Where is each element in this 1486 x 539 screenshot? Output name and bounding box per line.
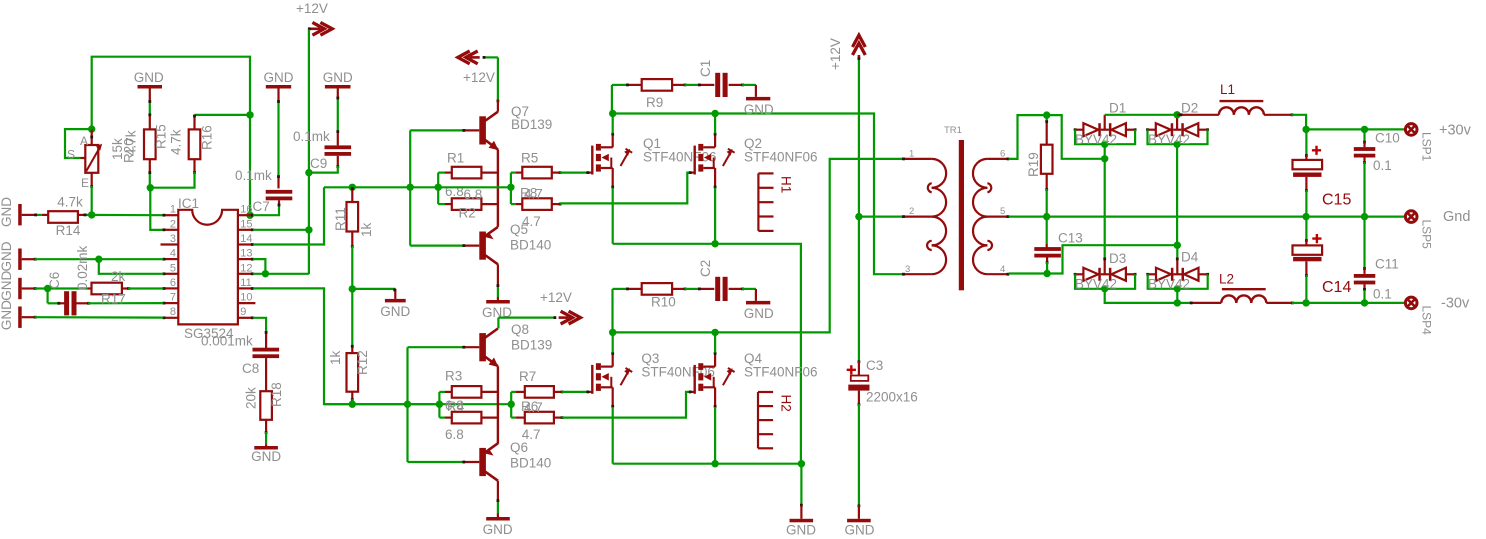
wire R2 right (481, 203, 498, 205)
junction VREF pin16 tap (246, 212, 253, 219)
wire Q8 base (408, 346, 464, 348)
junction +12V/C9 (305, 169, 312, 176)
svg-text:R10: R10 (651, 295, 676, 310)
wire -30v row (1306, 302, 1405, 304)
svg-text:C13: C13 (1058, 231, 1083, 246)
svg-text:R19: R19 (1026, 152, 1041, 177)
wire +12V rail x=308.9 (308, 30, 310, 275)
wire Q7 emitter rail (497, 149, 499, 227)
capacitor C2 (715, 277, 720, 301)
svg-text:16: 16 (240, 204, 252, 216)
svg-text:Q8: Q8 (511, 322, 529, 337)
wire pin6 row left (35, 287, 88, 289)
junction +30v node (1302, 126, 1309, 133)
capacitor C14 (polarized) (1312, 234, 1321, 243)
wire C7 bottom to pin16 (278, 200, 280, 204)
wire Q2 drain to rail (714, 114, 716, 134)
capacitor C11 (1354, 274, 1376, 278)
capacitor C8 (253, 348, 280, 352)
svg-text:R1: R1 (447, 151, 464, 166)
svg-text:R3: R3 (445, 369, 462, 384)
svg-text:D2: D2 (1181, 101, 1198, 116)
wire pin5 to C13 (1046, 217, 1048, 244)
svg-text:R9: R9 (646, 95, 663, 110)
wire divider mid to pin2 (150, 188, 163, 230)
junction R7/R6 left node (508, 401, 515, 408)
wire pin4 to D4 node (1009, 245, 1178, 273)
svg-text:R14: R14 (56, 223, 81, 238)
svg-text:14: 14 (240, 233, 252, 245)
junction R19 top (1043, 111, 1050, 118)
junction node A (trimmer top) (88, 125, 95, 132)
svg-text:9: 9 (240, 306, 246, 318)
wire R6 to Q4 gate (554, 417, 562, 419)
wire R17 right to pin6 (122, 287, 128, 289)
inductor L2 (1221, 295, 1236, 302)
junction D1 box tap (1101, 141, 1108, 148)
wire trimmer A lead (91, 129, 93, 145)
junction GND/C6 (44, 285, 51, 292)
wire D1 anode box (1075, 130, 1135, 145)
svg-text:12: 12 (240, 262, 252, 274)
svg-text:11: 11 (240, 277, 251, 289)
wire R4 right (481, 417, 498, 419)
transformer TR1 primary winding 2 (932, 217, 946, 246)
pin 9 stub (IC1 right) (238, 317, 253, 319)
power GND (mid, below R11) (385, 299, 406, 303)
svg-text:R5: R5 (521, 151, 538, 166)
wire C2 right to GND (729, 288, 742, 290)
transistor Q2 (STF40NF06) (694, 146, 696, 175)
wire R15 top (149, 101, 151, 116)
svg-text:C8: C8 (242, 361, 259, 376)
wire R14 left (35, 214, 42, 216)
wire Q3 source down (612, 407, 614, 464)
junction drain-rail2/Q4 (711, 329, 718, 336)
wire R10 left riser (611, 289, 613, 333)
wire R19 bottom (1046, 174, 1048, 189)
transistor Q5 (479, 232, 486, 260)
junction lower bases/node (404, 401, 411, 408)
junction +30v/C10 (1361, 126, 1368, 133)
wire pin6 to cathode taps (1009, 115, 1047, 159)
wire C8-R18 (265, 358, 267, 391)
wire pin5 jog (99, 259, 164, 274)
svg-text:LSP4: LSP4 (1420, 306, 1434, 336)
power GND (C2) (746, 301, 770, 305)
wire D2 anode box (1148, 130, 1208, 145)
wire lower source rail (613, 463, 802, 465)
svg-text:0.02mk: 0.02mk (75, 245, 90, 290)
svg-text:4.7: 4.7 (522, 214, 541, 229)
svg-text:2200x16: 2200x16 (866, 390, 918, 405)
wire pin14 to upper-node riser (253, 187, 324, 244)
svg-text:10: 10 (240, 292, 252, 304)
wire Q5 base (410, 245, 463, 247)
wire Q1 source down (612, 188, 614, 244)
svg-text:GND: GND (380, 304, 410, 319)
junction source rails join (798, 460, 805, 467)
svg-text:4.7k: 4.7k (169, 129, 184, 155)
junction R11 top (349, 184, 356, 191)
power GND (below R18) (265, 444, 267, 446)
wire Q4 drain to rail (714, 332, 716, 352)
svg-text:0.1mk: 0.1mk (293, 129, 330, 144)
wire upper source rail (613, 244, 801, 464)
wire D1-tap branch (1047, 115, 1105, 159)
transformer TR1 primary winding 1 (932, 159, 946, 188)
pin 13 stub (IC1 right) (238, 258, 253, 260)
svg-text:R20: R20 (122, 138, 137, 163)
svg-text:13: 13 (240, 248, 252, 260)
wire C10 top (1363, 129, 1365, 141)
wire L2 to -30v node (1266, 302, 1291, 304)
svg-text:BD139: BD139 (511, 117, 552, 132)
junction Gnd/C10-C11 (1361, 213, 1368, 220)
svg-text:3: 3 (170, 233, 176, 245)
svg-text:2: 2 (909, 206, 914, 217)
transistor Q7 (479, 116, 486, 144)
svg-text:GND: GND (0, 300, 14, 330)
pin 16 stub (IC1 right) (238, 214, 253, 216)
power GND (Q5 collector) (497, 297, 499, 300)
svg-text:+12V: +12V (540, 290, 572, 305)
pin 6 stub (IC1 left) (163, 287, 178, 289)
pin 1 lead (TR1) (903, 158, 932, 160)
wire R5 to Q1 gate (552, 172, 560, 174)
svg-text:R12: R12 (355, 350, 370, 375)
transistor Q4 (STF40NF06) (694, 365, 696, 394)
wire R5/R8 left loop (510, 173, 512, 205)
capacitor C13 (1034, 247, 1061, 251)
junction R12 bottom on lower node (349, 401, 356, 408)
svg-text:C2: C2 (698, 260, 713, 277)
diode D3 (BYV42) (1074, 273, 1077, 276)
diode D1 (BYV42) (1074, 128, 1077, 131)
wire pin8 row (35, 316, 164, 319)
resistor R3 (452, 386, 482, 398)
wire C6 right to pin7 (76, 302, 88, 304)
junction R14/trimmer-E/pin1 (88, 211, 95, 218)
wire pin9 to C8 (253, 318, 266, 332)
wire C3 bottom (858, 391, 860, 404)
junction -30v/C11 (1361, 299, 1368, 306)
junction pin6/D1-anodes/D3 (1101, 155, 1108, 162)
wire D4 cathode box (1148, 274, 1208, 289)
capacitor C7 (266, 190, 293, 194)
svg-text:2k: 2k (111, 269, 126, 284)
wire C10 bottom (1363, 158, 1365, 163)
pin 3 lead (TR1) (903, 273, 932, 275)
svg-text:8: 8 (170, 306, 176, 318)
junction -rail/L2 (1174, 299, 1181, 306)
svg-text:0.001mk: 0.001mk (201, 334, 253, 349)
svg-text:BYV42: BYV42 (1148, 277, 1190, 292)
wire pin11 to lower-node riser (253, 288, 440, 404)
junction pin13/pin12 (262, 270, 269, 277)
wire R19 top lead (1046, 115, 1048, 121)
wire R12 top (351, 289, 353, 346)
svg-text:0.1: 0.1 (1373, 287, 1392, 302)
wire R3/R4 left loop (438, 392, 440, 418)
pin 7 stub (IC1 left) (163, 302, 178, 304)
wire node to R5/R8 node (438, 186, 511, 188)
supply +12V arrow (transformer center) (853, 35, 866, 47)
resistor R19 (1041, 145, 1053, 174)
wire C14 top (1305, 217, 1307, 240)
wire Q4 source down (714, 407, 716, 464)
wire R10-C2 (672, 288, 684, 290)
pin 11 stub (IC1 right) (238, 287, 253, 289)
diode D4 (BYV42) (1146, 273, 1149, 276)
resistor R4 (452, 412, 482, 424)
wire C9 bottom (337, 156, 339, 166)
connector H1 (757, 173, 759, 231)
resistor R7 (525, 386, 554, 398)
resistor R8 (522, 198, 552, 210)
svg-text:C7: C7 (253, 199, 270, 214)
svg-text:-30v: -30v (1441, 296, 1470, 312)
wire top-left net (trimmer A to R16/C7 column) (92, 57, 250, 216)
svg-text:4.7: 4.7 (524, 400, 543, 415)
junction Gnd/C15-C14 (1302, 213, 1309, 220)
svg-text:+30v: +30v (1439, 123, 1472, 139)
junction D2 box tap (1173, 141, 1180, 148)
wire R12 bottom (351, 392, 353, 399)
svg-text:+12V: +12V (463, 70, 495, 85)
wire D2 box tap down (1176, 144, 1178, 245)
junction R19/pin5 (1043, 213, 1050, 220)
potentiometer R20 body (85, 145, 98, 173)
power GND (Q6 collector) (497, 514, 499, 518)
svg-text:6.8: 6.8 (464, 187, 483, 202)
junction R11/R12/GND (349, 285, 356, 292)
wire Q8 collector (498, 317, 555, 319)
svg-text:R11: R11 (333, 207, 348, 231)
transistor Q3 (STF40NF06) (591, 365, 593, 394)
pin 1 stub (IC1 left) (163, 214, 178, 216)
wire R15 bottom (149, 159, 151, 172)
transformer TR1 secondary winding 2 (973, 217, 987, 246)
pin 15 stub (IC1 right) (238, 229, 253, 231)
op-amp IC1 body (SG3524) (178, 210, 238, 325)
wire R9 left riser (611, 85, 613, 114)
wire +30v row (1306, 128, 1405, 130)
wire upper bases vertical (409, 130, 411, 245)
pin 5 lead (TR1) (987, 216, 1008, 218)
resistor R17 left lead (88, 287, 92, 289)
wire +12V to pin2/C3 (858, 58, 860, 217)
junction C13/pin4 (1043, 270, 1050, 277)
wire R3 right (481, 391, 498, 393)
svg-text:C14: C14 (1322, 279, 1351, 296)
svg-text:BD139: BD139 (511, 338, 552, 353)
pad LSP4 (1405, 297, 1417, 309)
svg-text:L2: L2 (1219, 272, 1234, 287)
junction pin4/D2-anodes/D4 (1174, 242, 1181, 249)
wire R8 to Q2 gate (552, 203, 560, 205)
svg-text:GND: GND (744, 306, 774, 321)
wire C7 top (277, 101, 279, 177)
pin 2 lead (TR1) (903, 216, 932, 218)
wire Q6 base (408, 461, 464, 463)
svg-text:15: 15 (240, 218, 252, 230)
wire -rail to L2 (1177, 302, 1190, 304)
wire pin2 lead (859, 216, 903, 218)
transistor Q1 (STF40NF06) (591, 146, 593, 175)
wire D2 to L1 (1177, 114, 1219, 116)
resistor R18 (260, 391, 272, 420)
resistor R15 (144, 129, 156, 159)
diode D2 (BYV42) (1146, 128, 1149, 131)
junction pin4/pin5 (95, 256, 102, 263)
svg-text:GND: GND (264, 70, 294, 85)
svg-text:C9: C9 (310, 156, 327, 171)
svg-text:D1: D1 (1109, 101, 1126, 116)
pin 8 stub (IC1 left) (163, 317, 178, 319)
pin 3 stub (IC1 left) (161, 243, 179, 245)
wire Q2 source down (714, 188, 716, 244)
wire R1/R2 left loop (437, 173, 439, 205)
wire C6 left lead (46, 289, 48, 304)
junction drain-rail/R9 (609, 110, 616, 117)
svg-text:5: 5 (170, 262, 176, 274)
svg-text:C6: C6 (47, 272, 62, 289)
pin 4 lead (TR1) (987, 273, 1008, 275)
svg-text:20k: 20k (244, 387, 259, 409)
wire D3 tap to -rail (1105, 289, 1178, 303)
wire C13 top lead (1046, 244, 1048, 248)
pad LSP1 (1405, 124, 1417, 136)
capacitor C9 (325, 145, 352, 149)
power GND (C3) (847, 519, 871, 523)
svg-text:C3: C3 (866, 358, 883, 373)
svg-text:BD140: BD140 (510, 238, 551, 253)
junction D4 box tap (1174, 285, 1181, 292)
pin 10 stub (IC1 right) (238, 302, 256, 304)
svg-text:S: S (67, 148, 75, 162)
wire Q1 drain to rail (612, 114, 614, 134)
svg-text:BYV42: BYV42 (1075, 132, 1117, 147)
wire to mid GND (352, 288, 395, 290)
resistor R9 (642, 79, 672, 91)
svg-text:R16: R16 (200, 125, 215, 150)
svg-text:GND: GND (845, 523, 875, 538)
wire Q7 base (410, 129, 463, 131)
svg-text:H2: H2 (779, 395, 794, 412)
svg-text:GND: GND (0, 241, 14, 271)
svg-text:4.7: 4.7 (522, 427, 541, 442)
supply +12V arrow (top-left) (320, 22, 332, 35)
svg-text:C1: C1 (698, 60, 713, 77)
svg-text:5: 5 (1000, 206, 1005, 217)
wire pin13 jog down (253, 259, 266, 274)
wire lower bases vertical (406, 347, 408, 462)
svg-text:IC1: IC1 (178, 196, 199, 211)
svg-text:GND: GND (483, 522, 513, 537)
pin 4 stub (IC1 left) (163, 258, 178, 260)
wire C8 top lead (265, 332, 267, 349)
wire R11 top lead (351, 187, 353, 202)
svg-text:4.7: 4.7 (524, 187, 543, 202)
svg-text:7: 7 (170, 292, 176, 304)
wire R11 bottom (351, 232, 353, 247)
resistor R11 (347, 202, 359, 232)
pin 5 stub (IC1 left) (163, 273, 178, 275)
svg-text:LSP5: LSP5 (1420, 220, 1434, 250)
wire D4 tap to -rail (1176, 289, 1178, 303)
svg-text:0.1mk: 0.1mk (235, 168, 272, 183)
wire pin12 to +12V rail (253, 273, 309, 275)
svg-text:STF40NF06: STF40NF06 (744, 365, 818, 380)
wire Gnd row (pin5 to LSP5) (1009, 216, 1405, 218)
wire D3 cathode box (1075, 274, 1135, 289)
wire C14 bottom (1305, 261, 1307, 275)
svg-text:A: A (80, 134, 88, 148)
svg-text:R2: R2 (459, 206, 476, 221)
wire C15 top (1305, 129, 1307, 155)
svg-text:GND: GND (134, 70, 164, 85)
resistor R12 (347, 353, 359, 392)
wire Q6 collector (497, 481, 499, 500)
svg-text:R18: R18 (269, 382, 284, 407)
transformer TR1 secondary winding 1 (973, 159, 987, 188)
junction -30v node (1302, 299, 1309, 306)
wire pin4 row (35, 258, 164, 260)
resistor R5 (522, 167, 552, 179)
svg-text:2: 2 (170, 218, 176, 230)
svg-text:E: E (81, 176, 89, 190)
wire R7 to Q3 gate (554, 391, 562, 393)
pin 12 stub (IC1 right) (238, 273, 253, 275)
svg-text:C10: C10 (1375, 131, 1400, 146)
inductor L1 (1219, 107, 1234, 114)
svg-text:1k: 1k (359, 222, 374, 237)
junction +12V/pin15 (305, 226, 312, 233)
svg-text:STF40NF06: STF40NF06 (744, 150, 818, 165)
wire trimmer S lead (65, 129, 92, 158)
wire lower drain rail (613, 159, 903, 333)
wire R16 bottom (193, 159, 195, 172)
wire upper drain rail (613, 114, 903, 275)
potentiometer R20 wiper arrow (86, 147, 100, 172)
svg-text:1: 1 (170, 204, 176, 216)
supply +12V arrow (Q8 collector) (569, 311, 581, 324)
capacitor C1 (715, 73, 720, 97)
wire C11 top (1363, 217, 1365, 268)
junction R15/R16 bottoms (147, 184, 154, 191)
wire R9-C1 (672, 84, 684, 86)
connector H2 (757, 392, 759, 448)
wire trimmer E lead (91, 173, 93, 186)
svg-text:6: 6 (1000, 149, 1005, 160)
svg-text:+12V: +12V (828, 38, 843, 70)
capacitor C3 (polarized) (847, 365, 856, 374)
wire source GND lead (800, 464, 802, 505)
wire Q8 emitter rail (497, 366, 499, 444)
svg-text:6.8: 6.8 (445, 427, 464, 442)
wire R1 right (481, 172, 498, 174)
wire C15 bottom (1305, 177, 1307, 190)
svg-text:L1: L1 (1220, 82, 1235, 97)
junction drain-rail/Q2 (711, 110, 718, 117)
wire D4 center up (1176, 245, 1178, 258)
wire lower node row (324, 403, 511, 405)
transistor Q8 (479, 333, 486, 361)
transformer TR1 core (959, 140, 964, 290)
junction source-rail2/Q4 (711, 460, 718, 467)
resistor R2 (452, 198, 482, 210)
